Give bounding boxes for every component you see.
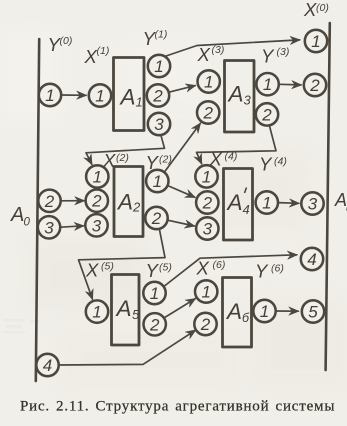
node L4 <box>36 354 58 376</box>
node R5 <box>302 300 324 322</box>
svg-text:X: X <box>102 150 116 171</box>
svg-text:A: A <box>119 85 136 110</box>
svg-text:A: A <box>225 299 242 324</box>
node A5 in1 <box>86 300 108 322</box>
svg-text:X: X <box>209 149 223 170</box>
wire A1 out1 to R1 <box>165 40 300 57</box>
node A3 in1 <box>198 70 220 92</box>
node A3 out2 <box>256 103 278 125</box>
svg-text:1: 1 <box>262 194 271 213</box>
svg-text:0: 0 <box>24 217 31 229</box>
svg-text:(1): (1) <box>97 45 110 57</box>
node A4 out1 <box>256 191 278 213</box>
node A5 out1 <box>143 282 165 304</box>
svg-text:4: 4 <box>43 356 52 375</box>
node A3 in2 <box>197 101 219 123</box>
wire A6 out1 to R5 <box>276 310 298 312</box>
svg-text:3: 3 <box>92 216 102 235</box>
node R2 <box>304 74 326 96</box>
svg-text:2: 2 <box>91 192 102 211</box>
node A1 out3 <box>148 113 170 135</box>
svg-text:A: A <box>227 82 244 107</box>
wire L3 to A2 in3 <box>61 226 84 227</box>
block A5 <box>112 275 140 346</box>
svg-text:Y: Y <box>255 261 269 282</box>
svg-text:1: 1 <box>93 168 102 187</box>
svg-text:3: 3 <box>44 218 54 237</box>
svg-text:X: X <box>303 0 317 20</box>
node A1 out2 <box>147 84 169 106</box>
wire A3 out1 to R2 <box>279 83 301 86</box>
node L1 <box>39 84 61 106</box>
svg-text:1: 1 <box>263 75 272 94</box>
node A2 out1 <box>146 170 168 192</box>
svg-text:2: 2 <box>44 192 55 211</box>
node A4 in3 <box>196 217 218 239</box>
svg-text:(2): (2) <box>159 154 172 166</box>
svg-text:Y: Y <box>146 152 160 173</box>
svg-text:1: 1 <box>150 284 159 303</box>
node L3 <box>38 216 60 238</box>
svg-text:(4): (4) <box>274 156 287 168</box>
svg-text:Y: Y <box>259 154 273 175</box>
wire L2 to A2 in2 <box>61 200 84 202</box>
svg-text:5: 5 <box>132 307 140 322</box>
right pole An line <box>326 23 330 370</box>
node A5 out2 <box>144 313 166 335</box>
svg-text:Y: Y <box>146 260 160 281</box>
svg-text:1: 1 <box>204 73 213 92</box>
node A2 in2 <box>86 190 108 212</box>
svg-text:A: A <box>116 190 133 215</box>
svg-text:(4): (4) <box>225 151 238 163</box>
wire A1 out3 to A2 in1 (bracket over X2) <box>86 135 165 164</box>
wire L1 to A1 input 1 <box>62 94 87 96</box>
svg-text:2: 2 <box>309 76 320 95</box>
svg-text:1: 1 <box>311 32 320 51</box>
svg-text:3: 3 <box>154 115 164 134</box>
svg-text:2: 2 <box>261 105 272 124</box>
svg-text:1: 1 <box>95 87 104 106</box>
block A3 <box>225 61 255 133</box>
svg-text:(6): (6) <box>271 263 284 275</box>
node A2 in3 <box>85 214 107 236</box>
svg-text:(5): (5) <box>101 261 114 273</box>
svg-text:(0): (0) <box>316 2 329 14</box>
svg-text:(1): (1) <box>155 29 168 41</box>
svg-text:1: 1 <box>202 167 211 186</box>
svg-text:4: 4 <box>243 202 250 217</box>
node A4 in1 <box>195 165 217 187</box>
wire A2 out2 to A5 in1 (bracket over X5) <box>79 229 166 299</box>
node R1 <box>305 30 327 52</box>
svg-text:2: 2 <box>202 194 213 213</box>
svg-text:3: 3 <box>244 93 252 108</box>
svg-text:2: 2 <box>152 87 163 106</box>
svg-text:(3): (3) <box>277 46 290 58</box>
wire A1 out2 to A3 in1 <box>169 86 195 93</box>
svg-text:3: 3 <box>308 195 318 214</box>
node R3 <box>301 192 323 214</box>
svg-text:2: 2 <box>132 200 141 215</box>
node A6 in2 <box>194 313 216 335</box>
svg-text:A: A <box>10 204 24 226</box>
svg-text:2: 2 <box>151 209 162 228</box>
block A4 <box>224 169 253 241</box>
block A6 <box>223 278 252 348</box>
svg-text:A: A <box>226 190 243 215</box>
svg-text:Рис. 2.11. Структура агрегатив: Рис. 2.11. Структура агрегативной систем… <box>20 399 335 415</box>
svg-text:1: 1 <box>45 86 54 105</box>
svg-text:3: 3 <box>203 220 213 239</box>
svg-text:б: б <box>242 311 250 325</box>
node L2 <box>38 190 60 212</box>
svg-text:2: 2 <box>200 315 211 334</box>
svg-text:(0): (0) <box>60 35 73 47</box>
svg-text:X: X <box>196 258 210 279</box>
svg-text:(5): (5) <box>159 262 172 274</box>
svg-text:(2): (2) <box>116 152 129 164</box>
node A6 in1 <box>195 280 217 302</box>
svg-text:X: X <box>85 260 99 281</box>
left pole A0 line <box>36 39 39 381</box>
svg-text:(3): (3) <box>212 44 225 56</box>
svg-text:4: 4 <box>307 250 316 269</box>
svg-text:1: 1 <box>154 57 163 76</box>
scan artifacts left margin <box>3 319 39 334</box>
svg-text:1: 1 <box>260 302 269 321</box>
node A2 in1 <box>86 165 108 187</box>
node A3 out1 <box>256 73 278 95</box>
block A1 <box>114 58 145 131</box>
node A1 out1 <box>148 55 170 77</box>
svg-text:A: A <box>115 296 132 321</box>
svg-text:(6): (6) <box>213 259 226 271</box>
node R4 <box>301 248 323 270</box>
wire A2 out1 to A4 in2 <box>168 186 195 198</box>
svg-text:1: 1 <box>153 172 162 191</box>
wire L4 to A6 in2 <box>59 330 195 365</box>
svg-text:2: 2 <box>202 104 213 123</box>
node A1 in1 <box>89 84 111 106</box>
svg-text:1: 1 <box>92 303 101 322</box>
wire A2 out1 to A3 in2 <box>164 123 200 172</box>
wire A3 out2 to A4 in1 (bracket over X4) <box>197 125 277 163</box>
svg-text:1: 1 <box>136 95 143 110</box>
svg-text:X: X <box>197 44 211 65</box>
wire A5 out1 to R4 <box>164 255 297 287</box>
node A4 in2 <box>196 191 218 213</box>
wire A2 out2 to A4 in3 <box>168 220 195 226</box>
node A6 out1 <box>253 300 275 322</box>
wire A4 out1 to R3 <box>278 202 299 205</box>
svg-text:X: X <box>84 46 98 67</box>
svg-text:1: 1 <box>201 283 210 302</box>
svg-text:5: 5 <box>308 303 318 322</box>
svg-text:Y: Y <box>261 46 275 67</box>
svg-text:2: 2 <box>149 315 160 334</box>
wire A5 out2 to A6 in1 <box>164 299 195 318</box>
block A2 <box>114 167 143 237</box>
node A2 out2 <box>145 207 167 229</box>
